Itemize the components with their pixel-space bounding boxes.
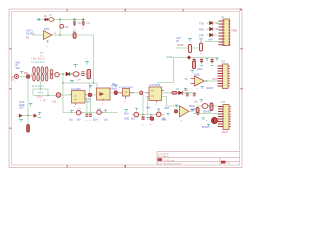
- wire bottom rail: [63, 112, 118, 114]
- frame tick top 2: [125, 9, 127, 12]
- junction loop right: [47, 95, 49, 97]
- frame tick bottom 1: [67, 165, 69, 168]
- supply symbol above chain 1: [74, 65, 78, 68]
- svg-text:AN3: AN3: [146, 106, 151, 109]
- teal supply mark: [200, 100, 203, 103]
- supply mark teal: [29, 104, 32, 107]
- svg-text:REF: REF: [165, 108, 170, 110]
- wire IC3 out right: [162, 92, 197, 94]
- wire top rail: [40, 19, 83, 21]
- op-amp power stub: [47, 40, 49, 43]
- series component between ICs: [88, 93, 92, 96]
- svg-text:TH_VM201: TH_VM201: [158, 156, 170, 158]
- fuse F2 rounded: [73, 72, 79, 77]
- svg-text:IN: IN: [176, 39, 179, 43]
- svg-text:AGN: AGN: [38, 91, 43, 94]
- svg-text:IC5A: IC5A: [44, 28, 50, 31]
- svg-text:00mA: 00mA: [111, 87, 118, 90]
- capacitor C10 striped: [82, 72, 85, 76]
- svg-text:Date: 9/13/06 10:23 PM: Date: 9/13/06 10:23 PM: [158, 163, 181, 166]
- resistor R6 below: [27, 118, 30, 133]
- connector JP3: [218, 101, 231, 134]
- junction row b: [150, 114, 152, 116]
- svg-text:ML10: ML10: [222, 132, 228, 134]
- capacitor C9: [82, 21, 91, 30]
- junction loop mid: [93, 82, 95, 84]
- svg-text:IC5B: IC5B: [194, 73, 200, 76]
- wire IC1 to comp to IC2: [87, 94, 97, 96]
- svg-text:GND: GND: [124, 119, 129, 121]
- diode D6: [210, 33, 213, 37]
- wire bottom row: [132, 114, 164, 116]
- svg-text:RXD: RXD: [199, 28, 204, 31]
- frame tick left 3: [9, 128, 12, 130]
- wire branch down mid filter: [40, 82, 42, 90]
- svg-text:AN0: AN0: [124, 112, 129, 115]
- svg-text:JP3: JP3: [221, 101, 226, 104]
- gnd teal between caps: [146, 117, 149, 119]
- svg-text:10u: 10u: [65, 26, 70, 29]
- wire second row: [174, 57, 219, 59]
- wire branch down from jack comp: [27, 79, 29, 116]
- component on op-amp3 input: [175, 110, 178, 113]
- svg-text:Conrad VM: Conrad VM: [158, 152, 169, 155]
- teal mark below transistor: [207, 125, 210, 127]
- frame tick top 3: [183, 9, 185, 12]
- junction filter right: [62, 73, 64, 75]
- junction bottom-left: [27, 115, 29, 117]
- gnd below chain teal: [70, 81, 74, 83]
- capacitor C5 element: [50, 70, 53, 79]
- title block logo EAGLE: [158, 158, 163, 161]
- op-amp IC5A: [44, 28, 53, 40]
- fuse F1: [49, 15, 54, 21]
- IC3 gnd stub below: [156, 101, 158, 103]
- diode D2: [66, 72, 69, 76]
- IC2 bottom stub: [102, 99, 104, 101]
- capacitor C6 ring: [55, 72, 59, 76]
- wire jack to comp: [19, 76, 27, 78]
- capacitor below row a: [193, 59, 196, 66]
- resistor hanging right: [210, 103, 213, 111]
- frame tick left 1: [9, 48, 12, 50]
- svg-text:10 10 10 10: 10 10 10 10: [32, 86, 45, 88]
- junction top rail 0: [59, 19, 61, 21]
- IC1 box: [70, 88, 88, 103]
- resistor R12 above op-amp2: [191, 61, 196, 72]
- svg-text:( 1m ( 1m ( 1: ( 1m ( 1m ( 1: [32, 58, 46, 60]
- capacitor C17: [89, 114, 92, 122]
- gnd teal below: [202, 118, 205, 120]
- diode D5: [210, 27, 213, 31]
- IC3 box: [147, 85, 165, 100]
- wires diodes to connector: [206, 23, 219, 35]
- box3 bottom stub: [125, 96, 127, 99]
- frame inner border: [12, 12, 240, 166]
- junction diamond: [187, 55, 191, 59]
- wire box3 to IC3: [134, 92, 149, 94]
- teal mark above series comp: [89, 86, 92, 89]
- wire top row conn3: [196, 105, 218, 107]
- svg-text:DTR: DTR: [199, 34, 204, 37]
- wire vertical long to IC2: [93, 35, 95, 83]
- capacitor C26 hanging: [142, 116, 145, 126]
- wire branch down to bottom rail: [62, 83, 64, 113]
- capacitor below row c: [211, 59, 214, 66]
- supply arrow top-left: [37, 18, 41, 21]
- capacitor C28 round: [156, 109, 161, 117]
- wire U loop below chain: [63, 74, 97, 88]
- transistor T1: [212, 118, 222, 124]
- diode D1: [44, 16, 48, 21]
- wire IC3 top to supply row: [158, 58, 174, 88]
- capacitor C16: [85, 114, 88, 122]
- frame outer border: [9, 9, 242, 168]
- wire mid row conn3: [193, 113, 218, 115]
- red lead resistor to box3: [118, 92, 123, 94]
- wire comp to filter row: [30, 74, 91, 77]
- teal below op-amp2: [201, 87, 204, 89]
- svg-text:PWR: PWR: [189, 106, 195, 108]
- wire bottom-left row: [20, 115, 37, 117]
- capacitor C24 round: [134, 108, 139, 117]
- capacitor C15 polarized round: [76, 111, 82, 115]
- junction loop left: [62, 82, 64, 84]
- teal mark row end: [167, 114, 170, 116]
- wire IC2 to resistor: [110, 92, 114, 94]
- IC4 small box: [123, 89, 130, 97]
- svg-text:GND: GND: [161, 119, 166, 121]
- resistor right of IC2: [114, 91, 117, 95]
- supply symbol above chain 2: [85, 62, 89, 65]
- wire verticals into row: [143, 95, 148, 115]
- teal mark left: [191, 110, 194, 112]
- junction loop top: [40, 88, 42, 90]
- svg-text:F09D: F09D: [232, 31, 238, 33]
- capacitor C18 polarized round: [97, 110, 103, 114]
- svg-text:L1 C2 L3 C4: L1 C2 L3 C4: [32, 62, 46, 64]
- teal mark row right a: [206, 59, 209, 61]
- teal mark above input comp: [175, 105, 178, 107]
- svg-text:SIG: SIG: [19, 106, 23, 110]
- capacitor C2 filter: [37, 67, 40, 81]
- IC1 gnd stub: [75, 103, 77, 105]
- frame tick right 1: [240, 48, 243, 50]
- svg-text:100n: 100n: [197, 68, 203, 71]
- svg-text:SIG: SIG: [16, 67, 20, 70]
- capacitor C11 electrolytic tall: [87, 69, 91, 78]
- svg-text:4148: 4148: [184, 90, 190, 92]
- capacitor C13 left: [19, 114, 23, 121]
- inductor L1: [33, 67, 36, 81]
- svg-text:C12: C12: [52, 102, 57, 104]
- wire loop lower: [33, 89, 58, 96]
- junction output: [59, 34, 61, 36]
- junction conn pins: [216, 22, 218, 24]
- wire vertical feedback: [59, 20, 61, 36]
- wire op-amp output: [52, 34, 94, 36]
- resistor R10 on wire: [140, 91, 143, 95]
- svg-text:+REF: +REF: [190, 109, 197, 111]
- svg-text:IN: IN: [185, 78, 188, 81]
- connector JP1: [219, 16, 238, 46]
- capacitor C7 polarized: [60, 24, 70, 29]
- svg-text:4.16r2 Light: 4.16r2 Light: [164, 159, 175, 162]
- diode D4: [210, 21, 213, 25]
- gnd teal left of row: [125, 110, 128, 112]
- svg-text:AGND: AGND: [166, 56, 173, 59]
- wire op-amp2 out: [205, 80, 219, 82]
- wire supply row: [176, 47, 203, 49]
- wire stub down from y83 to series comp: [89, 83, 91, 93]
- svg-text:78L05: 78L05: [177, 45, 184, 47]
- frame corner mark: [240, 9, 242, 11]
- teal mark row right b: [216, 59, 219, 61]
- svg-text:OUT: OUT: [212, 79, 217, 81]
- capacitor C12: [52, 93, 61, 104]
- svg-text:IC1 MAX: IC1 MAX: [72, 88, 82, 91]
- resistor hanging on supply row: [188, 39, 192, 53]
- capacitor C27 hanging: [149, 116, 152, 126]
- wire input to op-amp: [32, 34, 44, 36]
- svg-text:AGND: AGND: [206, 87, 213, 90]
- title block REV box: [221, 161, 226, 164]
- frame tick right 2: [240, 88, 243, 90]
- op-amp IC5B: [191, 73, 205, 86]
- wire C12 to IC1: [61, 94, 70, 96]
- svg-text:IC4 MCP3550: IC4 MCP3550: [119, 87, 134, 89]
- capacitor below row b: [200, 59, 203, 66]
- svg-text:LC: LC: [40, 55, 43, 57]
- svg-text:JP2: JP2: [221, 60, 226, 63]
- resistor R2 on rail: [73, 31, 77, 38]
- capacitor C22: [184, 89, 189, 96]
- teal mark left above box3: [115, 85, 118, 87]
- component left below row: [196, 108, 199, 114]
- fuse oval on row: [202, 104, 208, 109]
- red lead box3 right: [130, 92, 135, 94]
- junction top rail 1: [73, 18, 75, 20]
- teal supply mark right: [104, 110, 107, 113]
- capacitor C23: [193, 93, 196, 96]
- svg-text:TXD: TXD: [199, 22, 204, 25]
- wire op-amp3 out: [189, 110, 193, 112]
- junction out2: [206, 80, 208, 82]
- junction conn pin2: [216, 28, 218, 30]
- inductor L3: [41, 67, 44, 81]
- capacitor C4 filter: [45, 67, 48, 81]
- title block outline: [157, 151, 240, 165]
- frame tick bottom 2: [125, 165, 127, 168]
- capacitor C14 right: [34, 113, 42, 118]
- junction diamond 2: [196, 112, 200, 116]
- wire +5V to connector: [205, 41, 219, 43]
- wire IC3 to op-amp3 upper input: [162, 97, 180, 107]
- IC2 box: [97, 88, 111, 100]
- diode D3 on wire: [176, 89, 189, 95]
- junction top rail 2: [82, 18, 84, 20]
- svg-text:100n: 100n: [93, 120, 99, 122]
- component below row left: [151, 117, 154, 120]
- svg-text:16V: 16V: [77, 120, 82, 122]
- op-amp IC5D: [180, 106, 190, 117]
- connector JP2: [218, 60, 231, 88]
- svg-text:+5V: +5V: [208, 38, 213, 41]
- frame tick top 1: [67, 9, 69, 12]
- wires down to decoupling caps: [87, 98, 91, 114]
- connector jack X1: [15, 75, 19, 79]
- svg-text:VM: VM: [194, 102, 198, 104]
- teal supply mark on rail left: [70, 110, 73, 113]
- resistor R13: [199, 39, 203, 56]
- teal mark above jack: [20, 72, 23, 74]
- svg-text:+9V: +9V: [77, 79, 81, 81]
- junction row a: [142, 114, 144, 116]
- svg-text:IC3 PIC10: IC3 PIC10: [150, 85, 161, 87]
- component on jack wire: [27, 75, 30, 79]
- junction chain: [70, 73, 72, 75]
- frame tick left 2: [9, 88, 12, 90]
- resistor on out wire: [172, 91, 177, 94]
- capacitor C8: [73, 21, 82, 30]
- wire row below op-amp2: [183, 92, 196, 94]
